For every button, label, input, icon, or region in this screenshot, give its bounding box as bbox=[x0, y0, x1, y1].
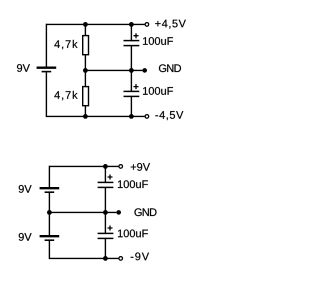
junction: circuit2 bottom rail / cap branch bbox=[103, 256, 108, 261]
wire: circuit2 bottom rail bbox=[49, 257, 118, 259]
label +9V terminal bbox=[131, 163, 150, 171]
label 4,7k R2 bbox=[54, 91, 77, 100]
label 100uF C3 bbox=[118, 180, 148, 188]
resistor R2 4,7k body bbox=[83, 87, 89, 106]
wire: circuit1 bottom rail bbox=[46, 115, 144, 117]
terminal dot GND circuit2 bbox=[116, 210, 121, 215]
label GND circuit2 bbox=[134, 208, 156, 216]
wire: circuit2 top rail bbox=[49, 165, 118, 167]
plus sign of C3 bbox=[108, 175, 113, 180]
resistor R1 4,7k body bbox=[83, 36, 89, 55]
label -9V terminal bbox=[131, 253, 149, 261]
label 4,7k R1 bbox=[54, 40, 77, 49]
wire: circuit2 left vertical segments bbox=[48, 166, 50, 187]
wire: circuit1 left vertical (battery branch lower) bbox=[45, 72, 47, 117]
label 100uF C2 bbox=[143, 87, 173, 95]
capacitor C4 bottom plate bbox=[98, 237, 114, 239]
junction: circuit1 mid rail / resistor branch bbox=[83, 68, 88, 73]
capacitor C2 top plate bbox=[124, 90, 140, 92]
battery B1 9V long plate bbox=[37, 66, 57, 68]
terminal circle +9V bbox=[119, 165, 123, 169]
label -4,5V terminal bbox=[155, 111, 183, 120]
wire: circuit1 resistor branch stubs bbox=[84, 24, 86, 35]
terminal circle -4,5V bbox=[145, 115, 149, 119]
battery B2 9V long plate bbox=[40, 187, 60, 189]
wire: circuit1 top rail bbox=[46, 23, 144, 25]
capacitor C3 top plate bbox=[98, 181, 114, 183]
terminal dot GND circuit1 bbox=[142, 68, 147, 73]
label 9V battery B1 bbox=[17, 64, 30, 72]
terminal circle +4,5V bbox=[145, 23, 149, 27]
junction: circuit1 top rail / cap branch bbox=[129, 22, 134, 27]
label 100uF C1 bbox=[143, 37, 173, 45]
label GND circuit1 bbox=[159, 64, 181, 72]
junction: circuit1 bottom rail / resistor branch bbox=[83, 114, 88, 119]
capacitor C2 bottom plate bbox=[124, 95, 140, 97]
junction: circuit1 bottom rail / cap branch bbox=[129, 114, 134, 119]
wire: circuit1 left vertical (battery branch upper) bbox=[45, 24, 47, 67]
junction: circuit1 top rail / resistor branch bbox=[83, 22, 88, 27]
battery B2 9V short plate bbox=[45, 191, 55, 193]
wire: circuit2 middle rail bbox=[49, 211, 116, 213]
terminal circle -9V bbox=[119, 257, 123, 261]
label 100uF C4 bbox=[118, 230, 148, 238]
junction: circuit2 mid rail / left branch bbox=[47, 210, 52, 215]
plus sign of C4 bbox=[108, 226, 113, 231]
battery B3 9V short plate bbox=[45, 239, 55, 241]
wire: circuit2 capacitor branch stubs bbox=[104, 166, 106, 182]
junction: circuit2 top rail / cap branch bbox=[103, 164, 108, 169]
label 9V battery B2 bbox=[19, 185, 32, 193]
plus sign of C1 bbox=[134, 33, 139, 38]
capacitor C1 top plate bbox=[124, 40, 140, 42]
label +4,5V terminal bbox=[155, 20, 186, 29]
wire: circuit1 middle rail bbox=[85, 69, 142, 71]
plus sign of C2 bbox=[134, 84, 139, 89]
junction: circuit2 mid rail / cap branch bbox=[103, 210, 108, 215]
battery B1 9V short plate bbox=[42, 71, 52, 73]
wire: circuit1 capacitor branch stubs bbox=[130, 24, 132, 40]
capacitor C4 top plate bbox=[98, 232, 114, 234]
junction: circuit1 mid rail / cap branch bbox=[129, 68, 134, 73]
capacitor C1 bottom plate bbox=[124, 45, 140, 47]
label 9V battery B3 bbox=[19, 233, 32, 241]
capacitor C3 bottom plate bbox=[98, 186, 114, 188]
battery B3 9V long plate bbox=[40, 235, 60, 237]
